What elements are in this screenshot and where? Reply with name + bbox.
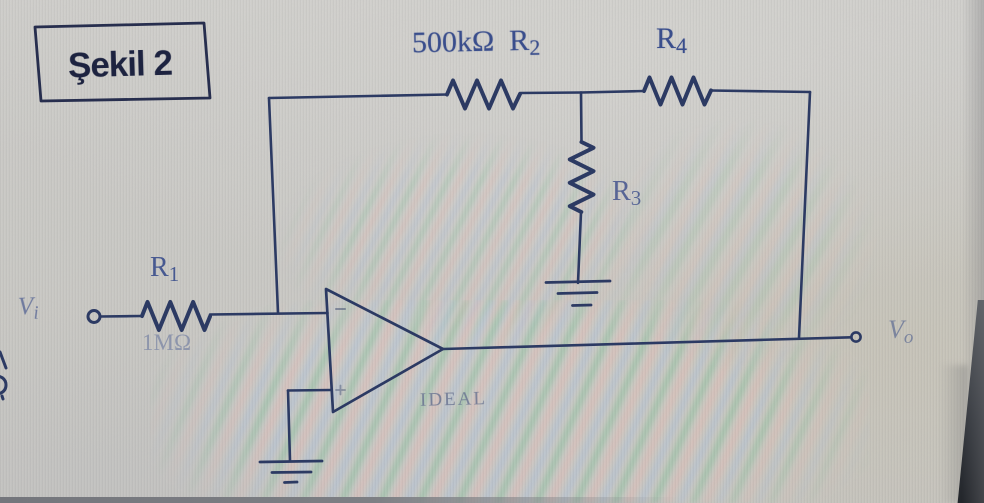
resistor R3	[570, 142, 594, 212]
wire output	[443, 337, 851, 349]
Şekil 2 box	[35, 23, 210, 101]
label R1	[150, 254, 179, 285]
label R3	[612, 178, 641, 209]
op-amp U1	[326, 289, 443, 412]
wire R2 to node	[520, 91, 581, 94]
label Vi	[18, 294, 40, 324]
wire R3 lower lead	[578, 212, 581, 283]
left-edge question-mark fragment	[0, 376, 6, 399]
op-amp plus sign	[336, 386, 345, 395]
ground (op-amp plus)	[260, 461, 322, 483]
wire Vi to R1	[100, 315, 142, 318]
op-amp minus sign	[336, 308, 345, 310]
wire node to R4	[581, 91, 644, 93]
wire top left segment	[269, 95, 447, 99]
label IDEAL	[420, 389, 487, 410]
wire feedback-loop left vertical	[269, 98, 278, 313]
moire rainbow stripes zone C (right of loop)	[590, 100, 920, 390]
moire rainbow stripes zone B (below output, strongest)	[150, 300, 870, 503]
left-edge text fragment (cut character)	[0, 352, 6, 368]
label Şekil 2	[67, 43, 178, 86]
label Vo	[888, 317, 913, 347]
resistor R1	[142, 302, 210, 330]
bottom-right dark wedge (photo edge)	[940, 300, 984, 503]
label R4	[656, 24, 687, 57]
resistor R2	[447, 81, 520, 109]
label 1MΩ (value of R1)	[142, 331, 191, 354]
node Vi terminal	[88, 311, 100, 323]
right edge slight darkening	[962, 0, 984, 503]
wire plus to ground vertical	[288, 391, 290, 462]
wedge penumbra	[940, 365, 968, 503]
wire plus input	[288, 389, 332, 392]
ground (R3)	[546, 281, 610, 306]
wire R1 to op-amp minus input	[210, 313, 328, 315]
wire right vertical	[799, 92, 810, 338]
bottom dark strip	[0, 497, 680, 503]
resistor R4	[644, 78, 711, 105]
moire rainbow stripes zone A (inside loop)	[250, 100, 670, 360]
wire R4 to top-right corner	[711, 91, 810, 93]
node Vo terminal	[851, 332, 860, 341]
wire R3 upper lead	[580, 93, 583, 143]
label 500kΩ R2	[412, 26, 541, 62]
